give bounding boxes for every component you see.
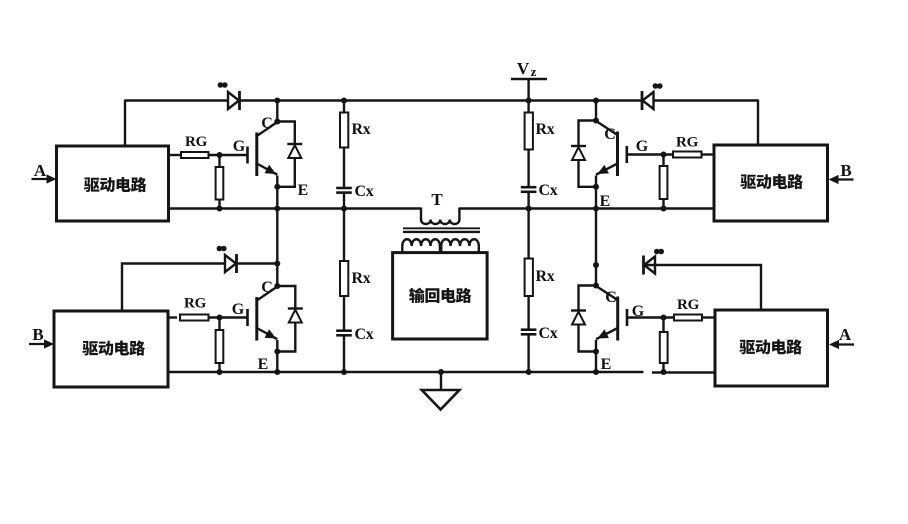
node: col-R on bottom rail bbox=[526, 369, 532, 375]
input A label (left top) bbox=[34, 161, 47, 180]
input A arrow (left top) bbox=[32, 174, 57, 183]
wire: top rail right drop to driver box bbox=[757, 100, 759, 146]
label: transformer T bbox=[431, 190, 443, 209]
wire: Rge3 bottom lead bbox=[662, 199, 664, 209]
node: Q4 emitter node bbox=[593, 349, 599, 355]
wire: Q1 collector to top rail bbox=[276, 101, 278, 122]
wire: bottom rail left part bbox=[168, 371, 644, 373]
svg-text:Cx: Cx bbox=[539, 182, 558, 199]
resistor Rge1 (gate-emitter) bbox=[216, 167, 224, 200]
label: Rx2 bbox=[352, 270, 371, 287]
svg-text:E: E bbox=[600, 193, 611, 210]
label: G of Q3 bbox=[636, 138, 649, 155]
label: U1 drive-circuit text bbox=[84, 177, 147, 192]
wire: Rx4 top lead bbox=[527, 209, 529, 259]
wire: U4 gate out to RG4 bbox=[702, 316, 715, 318]
resistor Rx4 bbox=[525, 259, 533, 297]
driver box U3 (top-right) bbox=[714, 145, 828, 221]
node: Q1 emitter node bbox=[274, 184, 280, 190]
snubber diode D1 bbox=[228, 91, 240, 110]
input A label (right bottom) bbox=[839, 325, 852, 344]
label: Cx1 bbox=[355, 183, 374, 200]
label: G of Q1 bbox=[233, 138, 246, 155]
svg-text:B: B bbox=[32, 325, 43, 344]
wire: D1a bottom jog bbox=[277, 158, 295, 187]
capacitor Cx1 bbox=[336, 188, 352, 193]
wire: U2 top riser bbox=[122, 264, 225, 312]
svg-text:Cx: Cx bbox=[355, 183, 374, 200]
svg-text:C: C bbox=[605, 289, 617, 306]
capacitor Cx2 bbox=[336, 331, 352, 336]
svg-text:B: B bbox=[840, 161, 851, 180]
svg-text:C: C bbox=[261, 115, 273, 132]
input B arrow (right top) bbox=[829, 175, 854, 184]
node: Q3 top rail junction bbox=[593, 98, 599, 104]
driver box U2 (bottom-left) bbox=[54, 311, 168, 387]
svg-text:Rx: Rx bbox=[352, 121, 371, 138]
IGBT Q4 bbox=[596, 286, 627, 341]
wire: top supply rail bbox=[125, 99, 758, 101]
svg-text:G: G bbox=[632, 303, 645, 320]
label: RG4 bbox=[677, 297, 700, 313]
wire: Rx1 to Cx1 bbox=[343, 148, 345, 189]
node: Q2 emitter on bottom rail bbox=[274, 369, 280, 375]
label: D1 infinity mark bbox=[218, 82, 228, 88]
svg-text:C: C bbox=[604, 126, 616, 143]
wire: Rx1 top lead bbox=[343, 101, 345, 113]
node: Rge1 on mid rail bbox=[217, 206, 223, 212]
label: Cx2 bbox=[355, 326, 374, 343]
wire: Rx4 to Cx4 bbox=[527, 296, 529, 330]
IGBT Q2 bbox=[248, 287, 278, 341]
wire: bottom rail right part bbox=[652, 371, 714, 373]
snubber diode D2 bbox=[225, 254, 237, 273]
wire: Rge1 bottom lead bbox=[218, 200, 220, 209]
node: Q2 collector node bbox=[274, 283, 280, 289]
node: ground junction dot bbox=[438, 369, 444, 375]
label: C of Q1 bbox=[261, 115, 273, 132]
wire: Rge1 top lead bbox=[218, 155, 220, 167]
node: Rge2 on bottom rail bbox=[217, 369, 223, 375]
node: col-R on mid rail bbox=[526, 206, 532, 212]
wire: Q1 emitter to mid rail bbox=[276, 176, 278, 209]
wire: Rge2 bottom lead bbox=[218, 363, 220, 372]
wire: Rx2 to Cx2 bbox=[343, 296, 345, 331]
snubber diode D4 bbox=[644, 256, 656, 275]
label: E of Q4 bbox=[601, 356, 612, 373]
wire: Vz stem bbox=[527, 79, 529, 101]
label: Rx3 bbox=[536, 121, 555, 138]
transformer T core lower line bbox=[403, 231, 480, 233]
freewheel diode D4a bbox=[571, 311, 586, 325]
svg-text:E: E bbox=[601, 356, 612, 373]
input B label (right top) bbox=[840, 161, 851, 180]
node: Rge3 on mid rail bbox=[661, 206, 667, 212]
supply Vz label bbox=[517, 59, 537, 79]
svg-text:C: C bbox=[261, 279, 273, 296]
wire: D1a top jog bbox=[277, 122, 295, 145]
label: G of Q4 bbox=[632, 303, 645, 320]
wire: U1 gate out to RG1 bbox=[169, 154, 182, 156]
wire: Rx3 top lead bbox=[527, 101, 529, 113]
wire: D3a top jog bbox=[579, 121, 597, 147]
wire: D2a top jog bbox=[277, 286, 295, 309]
svg-text:Rx: Rx bbox=[536, 268, 555, 285]
label: RG1 bbox=[185, 134, 208, 150]
svg-text:z: z bbox=[531, 64, 537, 79]
svg-text:V: V bbox=[517, 59, 530, 78]
svg-text:G: G bbox=[232, 301, 245, 318]
resistor RG4 bbox=[674, 315, 702, 321]
wire: D3a bottom jog bbox=[579, 160, 597, 187]
node: RG3/Rge3 junction bbox=[661, 152, 667, 158]
wire: Q4 collector riser bbox=[595, 265, 597, 286]
svg-text:RG: RG bbox=[676, 135, 699, 151]
capacitor Cx3 bbox=[521, 187, 537, 192]
input A arrow (right bottom) bbox=[829, 340, 854, 349]
node: Rge4 on bottom rail bbox=[661, 369, 667, 375]
svg-text:E: E bbox=[258, 356, 269, 373]
wire: Cx4 to bottom rail bbox=[527, 334, 529, 372]
label: RG3 bbox=[676, 135, 699, 151]
label: C of Q4 bbox=[605, 289, 617, 306]
svg-text:Rx: Rx bbox=[536, 121, 555, 138]
label: E of Q3 bbox=[600, 193, 611, 210]
node: Q3 collector node bbox=[593, 118, 599, 124]
transformer T core upper line bbox=[403, 227, 480, 229]
resistor Rx1 bbox=[340, 113, 348, 148]
label: RG2 bbox=[184, 296, 207, 312]
node: Q3 emitter on mid rail bbox=[593, 206, 599, 212]
wire: Rge4 top lead bbox=[662, 318, 664, 333]
resistor Rge2 (gate-emitter) bbox=[216, 330, 224, 363]
wire: RG1 to gate bbox=[209, 154, 248, 156]
node: D4 junction on collector wire bbox=[593, 262, 599, 268]
label: D2 infinity mark bbox=[217, 246, 227, 252]
node: col-L on bottom rail bbox=[341, 369, 347, 375]
wire: Q2 collector riser from mid rail bbox=[276, 209, 278, 287]
supply Vz terminal bar bbox=[511, 78, 547, 81]
input B label (left bottom) bbox=[32, 325, 43, 344]
label: D3 infinity mark bbox=[653, 83, 663, 89]
svg-text:Rx: Rx bbox=[352, 270, 371, 287]
label: U4 drive-circuit text bbox=[739, 339, 802, 354]
IGBT Q3 bbox=[596, 121, 627, 176]
node: Q1 top rail junction bbox=[274, 98, 280, 104]
driver box U1 (top-left) bbox=[57, 146, 169, 221]
wire: Q4 emitter to bottom rail bbox=[595, 340, 597, 372]
wire: Rx2 top lead bbox=[343, 209, 345, 262]
svg-text:G: G bbox=[636, 138, 649, 155]
label: Rx4 bbox=[536, 268, 555, 285]
wire: top rail left drop to driver box bbox=[124, 100, 126, 147]
node: RG1/Rge junction bbox=[217, 152, 223, 158]
wire: Rge3 top lead bbox=[662, 155, 664, 167]
transformer T secondary winding left bbox=[402, 239, 440, 252]
freewheel diode D1a bbox=[287, 144, 302, 158]
freewheel diode D2a bbox=[288, 309, 303, 323]
wire: D2a bottom jog bbox=[277, 323, 295, 352]
transformer T primary winding bbox=[421, 208, 459, 225]
node: Q2 emitter node bbox=[274, 349, 280, 355]
transformer T secondary winding right bbox=[441, 239, 479, 252]
label: Cx4 bbox=[539, 325, 558, 342]
wire: D4a top jog bbox=[579, 286, 597, 311]
label: output circuit text bbox=[409, 288, 471, 303]
wire: Cx1 to mid rail bbox=[343, 193, 345, 209]
wire: gate to RG4 bbox=[627, 316, 674, 318]
wire: D4a bottom jog bbox=[579, 325, 597, 352]
wire: Q3 emitter to mid rail bbox=[595, 176, 597, 209]
resistor RG2 bbox=[180, 315, 209, 321]
wire: Rx3 to Cx3 bbox=[527, 150, 529, 188]
node: Q1 emitter on mid rail bbox=[274, 206, 280, 212]
resistor Rge4 (gate-emitter) bbox=[660, 332, 668, 363]
wire: U3 gate out to RG3 bbox=[702, 153, 715, 155]
svg-text:G: G bbox=[233, 138, 246, 155]
node: col-L on mid rail bbox=[341, 206, 347, 212]
svg-text:T: T bbox=[431, 190, 443, 209]
label: D4 infinity mark bbox=[654, 249, 664, 255]
output circuit box bbox=[393, 253, 488, 339]
wire: RG2 to gate bbox=[209, 316, 248, 318]
wire: Q2 emitter to bottom rail bbox=[276, 340, 278, 372]
wire: Cx2 to bottom rail bbox=[343, 335, 345, 372]
node: Q1 collector node bbox=[274, 119, 280, 125]
svg-text:RG: RG bbox=[677, 297, 700, 313]
wire: gate to RG3 bbox=[627, 153, 673, 155]
wire: Q3 collector to top rail bbox=[595, 101, 597, 121]
svg-text:A: A bbox=[34, 161, 47, 180]
svg-text:Cx: Cx bbox=[539, 325, 558, 342]
wire: ground stem bbox=[440, 372, 442, 390]
resistor Rx3 bbox=[525, 113, 533, 150]
label: U2 drive-circuit text bbox=[82, 340, 145, 355]
wire: Rge2 top lead bbox=[218, 318, 220, 331]
svg-text:RG: RG bbox=[184, 296, 207, 312]
resistor RG1 bbox=[181, 152, 209, 158]
node: D2 junction on collector wire bbox=[274, 261, 280, 267]
svg-text:E: E bbox=[298, 182, 309, 199]
wire: D4 row to U4 top bbox=[645, 265, 761, 310]
node: RG4/Rge4 junction bbox=[661, 315, 667, 321]
resistor Rx2 bbox=[340, 261, 348, 296]
wire: Rge4 bottom lead bbox=[662, 363, 664, 372]
wire: Q4 riser mid rail to diode row bbox=[595, 209, 597, 266]
capacitor Cx4 bbox=[521, 330, 537, 335]
label: U3 drive-circuit text bbox=[740, 174, 803, 189]
label: Cx3 bbox=[539, 182, 558, 199]
node: snubber col-R on top rail bbox=[526, 98, 532, 104]
label: C of Q2 bbox=[261, 279, 273, 296]
wire: Cx3 to mid rail bbox=[527, 192, 529, 209]
label: G of Q2 bbox=[232, 301, 245, 318]
wire: mid rail right segment bbox=[460, 207, 715, 209]
freewheel diode D3a bbox=[571, 146, 586, 160]
wire: D2 to collector node bbox=[237, 262, 277, 264]
label: E of Q2 bbox=[258, 356, 269, 373]
node: Q3 emitter node bbox=[593, 184, 599, 190]
wire: mid rail left segment bbox=[169, 207, 422, 209]
resistor RG3 bbox=[673, 152, 702, 158]
node: RG2/Rge2 junction bbox=[217, 315, 223, 321]
resistor Rge3 (gate-emitter) bbox=[660, 166, 668, 199]
node: Q4 collector node bbox=[593, 283, 599, 289]
node: snubber col-L on top rail bbox=[341, 98, 347, 104]
wire: U2 gate out to RG2 bbox=[168, 316, 177, 318]
label: C of Q3 bbox=[604, 126, 616, 143]
driver box U4 (bottom-right) bbox=[715, 310, 828, 386]
IGBT Q1 bbox=[248, 122, 278, 176]
label: E of Q1 bbox=[298, 182, 309, 199]
snubber diode D3 bbox=[642, 91, 654, 110]
ground symbol bbox=[422, 390, 460, 410]
svg-text:A: A bbox=[839, 325, 852, 344]
svg-text:RG: RG bbox=[185, 134, 208, 150]
node: Q4 emitter on bottom rail bbox=[593, 369, 599, 375]
input B arrow (left bottom) bbox=[29, 339, 54, 348]
label: Rx1 bbox=[352, 121, 371, 138]
svg-text:Cx: Cx bbox=[355, 326, 374, 343]
